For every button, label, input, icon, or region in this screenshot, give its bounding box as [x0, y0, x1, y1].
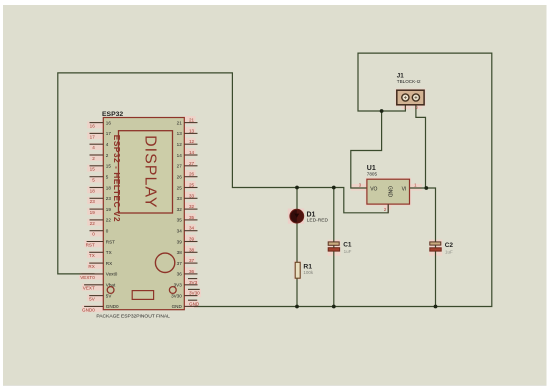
svg-text:VEXT0: VEXT0: [80, 275, 95, 280]
svg-text:15: 15: [106, 164, 112, 169]
svg-text:RX: RX: [88, 264, 94, 269]
svg-text:21: 21: [189, 118, 195, 123]
svg-text:2: 2: [106, 153, 109, 158]
svg-text:37: 37: [189, 258, 195, 263]
svg-text:TBLOCK-I2: TBLOCK-I2: [397, 79, 421, 84]
svg-text:18: 18: [90, 188, 96, 193]
svg-text:LED-RED: LED-RED: [307, 217, 329, 223]
svg-text:13: 13: [177, 131, 183, 136]
svg-text:C2: C2: [445, 242, 454, 249]
svg-text:5: 5: [106, 175, 109, 180]
svg-text:14: 14: [189, 150, 195, 155]
svg-text:21: 21: [177, 120, 183, 125]
svg-text:35: 35: [177, 218, 183, 223]
svg-text:GND: GND: [387, 186, 393, 198]
svg-text:27: 27: [177, 164, 183, 169]
svg-text:GND: GND: [189, 301, 200, 306]
svg-text:5: 5: [92, 178, 95, 183]
svg-text:4: 4: [106, 142, 109, 147]
svg-text:1uF: 1uF: [344, 249, 352, 254]
svg-text:26: 26: [177, 175, 183, 180]
svg-text:13: 13: [189, 128, 195, 133]
svg-text:5V: 5V: [106, 293, 113, 298]
svg-text:3V30: 3V30: [171, 293, 182, 298]
svg-text:0: 0: [92, 232, 95, 237]
svg-text:22: 22: [90, 221, 96, 226]
svg-text:C1: C1: [343, 242, 352, 249]
svg-text:2: 2: [416, 106, 418, 110]
svg-text:PACKAGE ESP32PINOUT FINAL: PACKAGE ESP32PINOUT FINAL: [96, 314, 170, 320]
svg-text:12: 12: [177, 142, 183, 147]
svg-text:27: 27: [189, 161, 195, 166]
svg-text:14: 14: [177, 153, 183, 158]
svg-text:37: 37: [177, 261, 183, 266]
svg-text:5V: 5V: [89, 297, 96, 302]
svg-text:19: 19: [90, 210, 96, 215]
svg-text:VO: VO: [370, 186, 377, 192]
svg-text:22: 22: [106, 218, 112, 223]
svg-text:32: 32: [177, 207, 183, 212]
svg-text:17: 17: [106, 131, 112, 136]
svg-text:38: 38: [189, 247, 195, 252]
svg-text:17: 17: [90, 134, 96, 139]
svg-text:3V3: 3V3: [189, 280, 198, 285]
svg-text:33: 33: [177, 196, 183, 201]
svg-text:DISPLAY: DISPLAY: [142, 135, 159, 208]
svg-text:ESP32 - HELTEC V2: ESP32 - HELTEC V2: [112, 135, 121, 222]
svg-text:Vext0: Vext0: [106, 272, 118, 277]
svg-text:GND0: GND0: [82, 307, 95, 312]
svg-text:23: 23: [106, 196, 112, 201]
svg-text:D1: D1: [307, 211, 316, 218]
svg-text:100k: 100k: [303, 270, 314, 275]
svg-text:ESP32: ESP32: [102, 111, 123, 118]
svg-text:VEXT: VEXT: [83, 286, 95, 291]
svg-text:GND0: GND0: [106, 304, 119, 309]
svg-text:35: 35: [189, 215, 195, 220]
svg-text:GND: GND: [172, 304, 183, 309]
svg-text:25: 25: [189, 183, 195, 188]
svg-text:18: 18: [106, 185, 112, 190]
svg-text:VI: VI: [402, 186, 407, 192]
svg-text:19: 19: [106, 207, 112, 212]
svg-text:36: 36: [177, 272, 183, 277]
svg-text:26: 26: [189, 172, 195, 177]
svg-text:33: 33: [189, 193, 195, 198]
svg-text:39: 39: [177, 239, 183, 244]
svg-text:32: 32: [189, 204, 195, 209]
svg-text:25: 25: [177, 185, 183, 190]
svg-text:16: 16: [90, 124, 96, 129]
svg-text:TX: TX: [89, 253, 95, 258]
svg-text:39: 39: [189, 237, 195, 242]
svg-text:15: 15: [90, 167, 96, 172]
svg-text:23: 23: [90, 199, 96, 204]
svg-text:1uF: 1uF: [445, 249, 453, 254]
svg-text:16: 16: [106, 120, 112, 125]
svg-text:7805: 7805: [367, 171, 378, 176]
svg-text:RST: RST: [106, 239, 115, 244]
svg-text:2: 2: [92, 156, 95, 161]
svg-text:4: 4: [92, 145, 95, 150]
svg-text:12: 12: [189, 139, 195, 144]
svg-text:3V30: 3V30: [189, 291, 200, 296]
svg-text:34: 34: [189, 226, 195, 231]
svg-text:34: 34: [177, 229, 183, 234]
svg-text:RST: RST: [86, 242, 95, 247]
svg-text:1: 1: [404, 106, 406, 110]
svg-text:38: 38: [177, 250, 183, 255]
svg-text:TX: TX: [106, 250, 112, 255]
svg-text:0: 0: [106, 229, 109, 234]
svg-text:RX: RX: [106, 261, 112, 266]
svg-text:36: 36: [189, 269, 195, 274]
